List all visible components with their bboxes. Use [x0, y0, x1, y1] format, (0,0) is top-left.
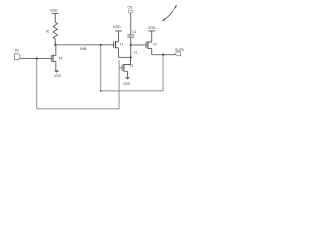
capacitor C1 [127, 30, 136, 37]
wire y91 horizontal [101, 90, 163, 92]
wire IN gate [20, 57, 51, 59]
power VSS (T3 source) [123, 77, 131, 86]
svg-text:VDD: VDD [113, 25, 121, 29]
power VSS (T4 source) [54, 70, 62, 78]
svg-text:VSS: VSS [54, 74, 62, 78]
svg-text:C1: C1 [132, 30, 136, 34]
svg-text:C8: C8 [128, 6, 133, 10]
wire C8 to capacitor [130, 13, 132, 35]
port C8 [128, 6, 133, 13]
svg-text:R1: R1 [46, 29, 50, 33]
wire capacitor down to o1 [130, 37, 132, 57]
annotation arrow top-right [162, 5, 176, 21]
svg-text:T3: T3 [129, 64, 133, 68]
svg-text:VDD: VDD [148, 26, 156, 30]
transistor T3 [122, 57, 133, 77]
svg-text:OUTB: OUTB [175, 48, 184, 52]
transistor T4 (left NMOS) [51, 45, 62, 70]
wire net INB [55, 44, 113, 46]
resistor R1 [53, 22, 57, 39]
transistor T1 [114, 31, 124, 57]
wire INB drop [100, 44, 102, 46]
power VDD1 [50, 9, 58, 23]
svg-text:VSS: VSS [123, 82, 131, 86]
wire T3 gate stub [119, 67, 122, 69]
transistor T2 [146, 31, 157, 55]
junction node INB/R1/T4-drain [54, 44, 56, 46]
wire OUT [152, 54, 175, 56]
power VDD2 [113, 25, 122, 31]
port OUTB [175, 48, 184, 56]
wire feedback: IN junction down and along bottom [37, 58, 119, 108]
junction node o1 [130, 56, 132, 58]
svg-text:T4: T4 [58, 57, 62, 61]
wire o1 jog from T1 source [118, 56, 130, 58]
wire resistor to INB node [54, 39, 56, 45]
wire T3 gate riser [118, 60, 120, 109]
wire feedback right riser [162, 55, 164, 91]
junction IN/feedback [36, 57, 38, 59]
junction OUT/feedback [162, 54, 164, 56]
svg-text:T1: T1 [120, 42, 124, 46]
wire T2 gate branch [131, 44, 146, 46]
svg-text:IN: IN [15, 48, 19, 52]
junction C1/T2-gate branch [130, 44, 132, 46]
port IN [15, 48, 20, 59]
power VDD3 [148, 26, 156, 31]
svg-text:T2: T2 [153, 42, 157, 46]
svg-text:o1: o1 [134, 51, 138, 55]
junction corner at y91 [100, 90, 102, 92]
svg-text:INB: INB [80, 47, 87, 51]
svg-text:VDD: VDD [50, 9, 58, 13]
